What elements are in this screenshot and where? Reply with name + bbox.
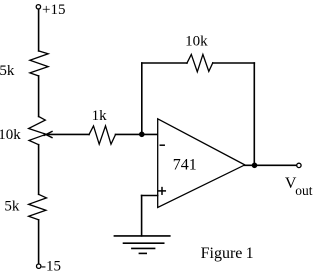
resistor R5 10k feedback bbox=[187, 54, 213, 71]
wire feedback top right bbox=[213, 62, 255, 64]
node junction inverting input bbox=[139, 132, 145, 138]
resistor R4 1k bbox=[89, 126, 116, 144]
svg-text:10k: 10k bbox=[0, 127, 21, 143]
wire noninverting input bbox=[142, 195, 158, 197]
svg-text:10k: 10k bbox=[185, 34, 208, 50]
wire 1k to inverting input bbox=[116, 133, 158, 135]
wire bottom rail bbox=[38, 220, 40, 264]
wire top rail bbox=[38, 9, 40, 51]
potentiometer R2 10k bbox=[29, 117, 46, 145]
svg-text:1: 1 bbox=[246, 245, 254, 262]
ground bbox=[114, 235, 169, 237]
svg-text:741: 741 bbox=[173, 157, 197, 174]
svg-text:5k: 5k bbox=[0, 63, 15, 79]
wiper arrow bbox=[46, 133, 89, 135]
terminal Vout bbox=[297, 163, 301, 167]
svg-text:5k: 5k bbox=[4, 199, 20, 215]
svg-text:-15: -15 bbox=[41, 259, 61, 275]
svg-text:out: out bbox=[295, 183, 313, 198]
svg-text:Figure: Figure bbox=[201, 245, 243, 262]
wire to ground bbox=[141, 196, 143, 236]
terminal -15 bbox=[37, 264, 41, 268]
wire feedback right vertical bbox=[253, 63, 255, 165]
op-amp U1 triangle bbox=[158, 119, 245, 208]
wire output bbox=[245, 164, 297, 166]
node output junction bbox=[252, 163, 258, 169]
terminal +15 bbox=[36, 5, 40, 9]
wire rail between R1 and pot bbox=[38, 76, 40, 117]
wire rail between pot and R3 bbox=[38, 145, 40, 195]
wire feedback top left bbox=[142, 62, 187, 64]
svg-text:+15: +15 bbox=[42, 2, 65, 18]
resistor R1 5k bbox=[30, 51, 48, 76]
svg-text:1k: 1k bbox=[92, 108, 108, 124]
plus input marker bbox=[159, 190, 166, 192]
minus input marker bbox=[160, 144, 164, 146]
wire feedback left vertical bbox=[141, 63, 143, 134]
resistor R3 5k bbox=[29, 194, 47, 220]
